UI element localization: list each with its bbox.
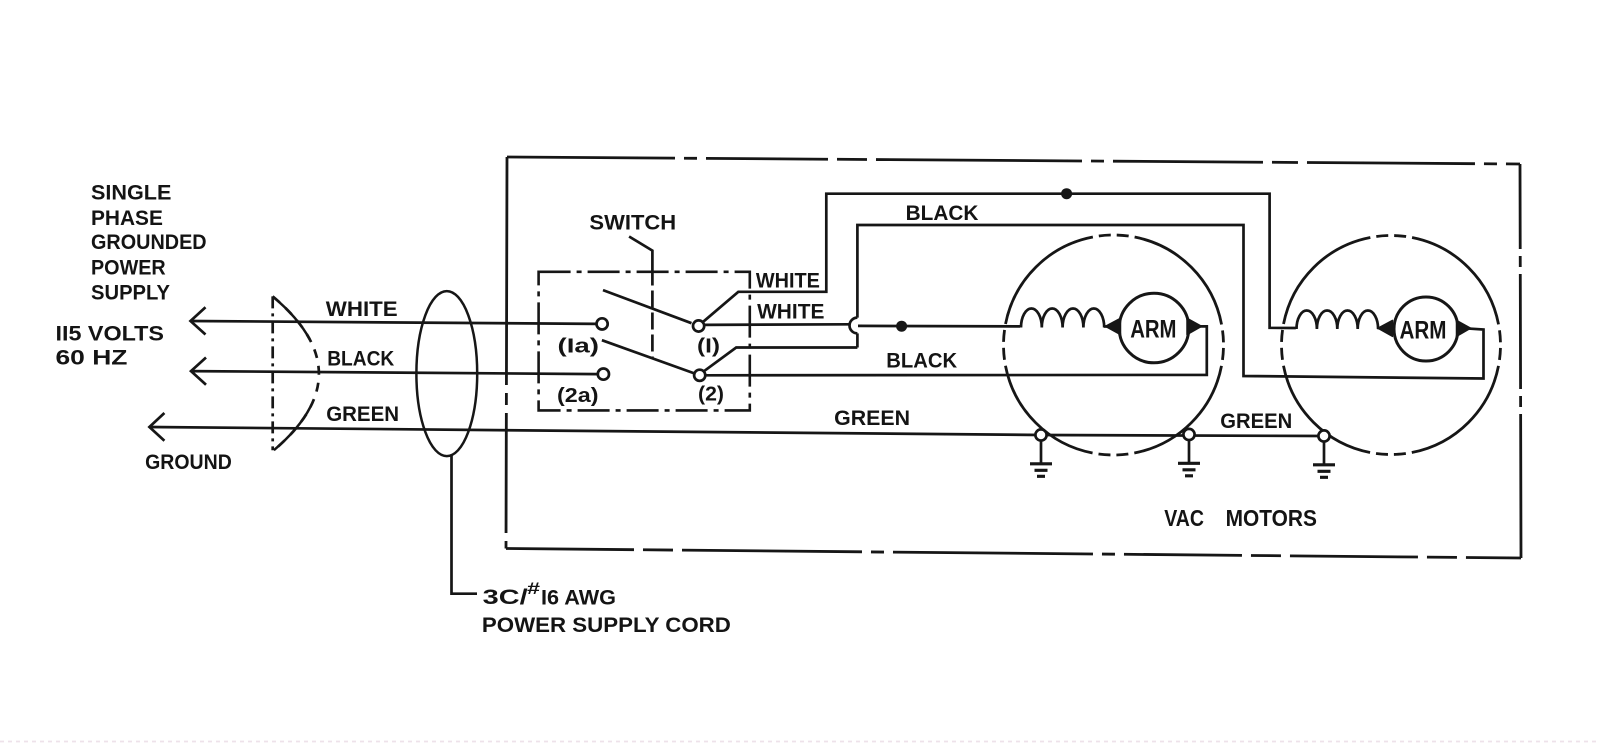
junction dot on white wire to motor 1 (896, 321, 907, 332)
svg-text:I6 AWG: I6 AWG (541, 587, 616, 610)
svg-text:#: # (527, 579, 541, 598)
svg-text:BLACK: BLACK (886, 350, 957, 373)
switch terminal (1) (693, 320, 704, 331)
motor 1 ARM right terminal (1187, 318, 1202, 334)
ground stub 1 stem (1040, 441, 1043, 463)
svg-text:GREEN: GREEN (326, 403, 399, 426)
black wire: motor1 ARM right down and back to switch (2) (705, 326, 1206, 375)
switch terminal (1a) (597, 318, 608, 329)
motor 2 coil to ARM wire (1377, 327, 1394, 330)
svg-text:MOTORS: MOTORS (1226, 505, 1317, 531)
cord ellipse (416, 291, 477, 456)
svg-text:POWER SUPPLY CORD: POWER SUPPLY CORD (482, 614, 731, 637)
junction dot on white top run (1061, 188, 1072, 199)
ground terminal 3 (1318, 430, 1329, 441)
switch label leader (629, 237, 652, 269)
svg-text:ARM: ARM (1400, 317, 1447, 345)
ground 1 symbol (1030, 464, 1052, 477)
enclosure box right edge (dash-dot) (1520, 164, 1521, 558)
label: 3C/#16 AWG (483, 579, 616, 610)
svg-text:60 HZ: 60 HZ (56, 347, 128, 370)
plug arc solid top (273, 296, 310, 339)
green wire arrowhead (149, 413, 164, 441)
motor 2 field coil (1297, 310, 1379, 329)
svg-text:3C/: 3C/ (483, 586, 528, 609)
motor 1 field coil (1021, 308, 1104, 327)
white wire: switch (1) to top run and motor 2 coil (703, 194, 1296, 328)
white wire (plug to switch 1a) (191, 321, 597, 324)
cord leader line (452, 455, 478, 593)
motor 1 coil to ARM wire (1104, 325, 1120, 328)
switch terminal (2a) (598, 369, 609, 380)
svg-text:VAC: VAC (1164, 505, 1204, 531)
svg-text:II5 VOLTS: II5 VOLTS (56, 323, 165, 346)
svg-text:(I): (I) (697, 336, 720, 358)
ground 3 symbol (1313, 465, 1335, 478)
motor 2 ARM right terminal (1457, 320, 1471, 336)
label: vac motors (1164, 505, 1317, 531)
svg-text:POWER: POWER (91, 256, 166, 279)
hop (black riser jumps white wire) (850, 318, 858, 334)
switch actuator link (dashed) (651, 269, 654, 359)
svg-text:(2): (2) (698, 384, 724, 406)
enclosure box bottom edge (dash-dot) (506, 549, 1521, 559)
label: 115 volts 60 hz (56, 323, 165, 370)
svg-text:BLACK: BLACK (327, 348, 394, 371)
plug arc solid bottom (274, 407, 310, 450)
enclosure box top edge (dash-dot) (507, 157, 1520, 164)
white wire: switch (1) straight to motor 1 coil, left of hop (704, 323, 849, 326)
black riser below hop (856, 333, 859, 347)
switch box (dash-dot) (539, 272, 750, 411)
motor 2 armature circle (1394, 297, 1458, 361)
motor 1 ARM left terminal (1106, 318, 1121, 334)
ground stub 3 stem (1323, 442, 1326, 464)
svg-text:WHITE: WHITE (757, 300, 824, 323)
scan artifact dotted line at page bottom (0, 741, 1600, 743)
svg-text:GROUND: GROUND (145, 451, 232, 474)
svg-text:BLACK: BLACK (906, 202, 979, 225)
switch blade 2 (602, 340, 694, 373)
motor 1 armature circle (1119, 293, 1189, 363)
ground stub 2 stem (1188, 440, 1191, 462)
white wire: hop to motor 1 coil (858, 325, 1020, 328)
svg-text:WHITE: WHITE (756, 269, 820, 292)
enclosure box left edge (dash-dot) (506, 157, 507, 549)
black wire (plug to switch 2a) (191, 371, 598, 374)
plug arc dashed middle (273, 296, 319, 450)
switch blade 1 (603, 290, 692, 323)
svg-text:(2a): (2a) (557, 385, 599, 407)
svg-text:SUPPLY: SUPPLY (91, 282, 170, 305)
svg-text:SWITCH: SWITCH (589, 212, 676, 235)
svg-text:GREEN: GREEN (834, 407, 910, 430)
motor 2 ARM left terminal (1378, 320, 1393, 336)
plug flat side (dash-dot vertical) (271, 296, 274, 450)
black wire arrowhead (191, 358, 206, 385)
black riser above hop, top run, down to motor 2 black run (857, 225, 1483, 379)
green wire (ground run to motors) (149, 427, 1324, 436)
black wire: switch (2) diagonal to riser (704, 348, 858, 372)
ground 2 symbol (1178, 463, 1200, 476)
svg-text:WHITE: WHITE (326, 298, 398, 321)
svg-text:GREEN: GREEN (1220, 410, 1292, 433)
ground terminal 2 (1183, 429, 1194, 440)
motor 2 housing circle (dash-dot) (1282, 236, 1501, 455)
ground terminal 1 (1035, 429, 1046, 440)
svg-text:(Ia): (Ia) (558, 336, 600, 358)
svg-text:ARM: ARM (1130, 316, 1176, 344)
svg-text:SINGLE: SINGLE (91, 182, 171, 205)
svg-text:PHASE: PHASE (91, 207, 163, 230)
white wire arrowhead (191, 307, 206, 334)
label: single phase grounded power supply (91, 182, 207, 305)
svg-text:GROUNDED: GROUNDED (91, 231, 207, 254)
motor 1 housing circle (dash-dot) (1004, 235, 1224, 455)
switch terminal (2) (694, 370, 705, 381)
